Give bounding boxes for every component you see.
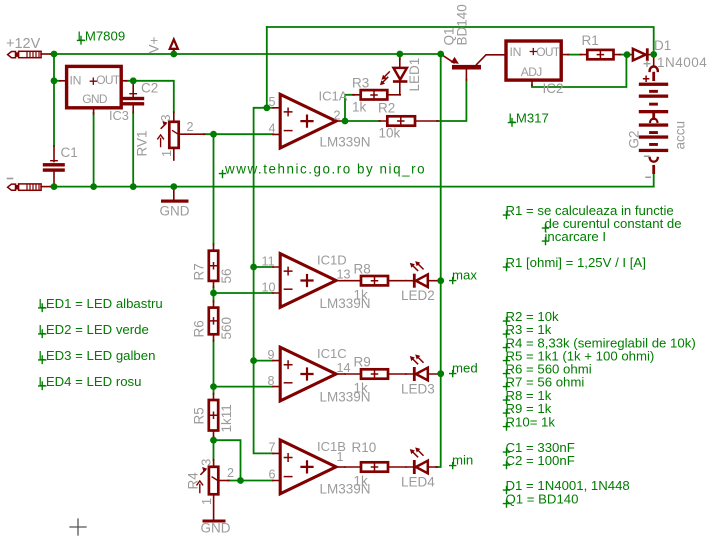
note LED4 legend (39, 374, 142, 390)
svg-text:GND: GND (82, 92, 108, 106)
label R9 (354, 355, 371, 370)
pin label 7 (269, 441, 276, 455)
wire V+ +12V top rail (51, 53, 441, 55)
svg-text:R1 [ohmi] = 1,25V / I [A]: R1 [ohmi] = 1,25V / I [A] (506, 255, 646, 270)
wire sense down to IC1A pin5 (266, 27, 268, 108)
svg-text:10: 10 (262, 281, 276, 295)
note LED3 legend (39, 348, 156, 364)
label +12V (6, 36, 41, 52)
svg-text:1k11: 1k11 (219, 404, 234, 432)
svg-text:1k: 1k (354, 474, 369, 489)
wire +12V jack to IN/C1 column (53, 54, 55, 146)
label R8 (354, 262, 371, 277)
svg-text:accu: accu (673, 121, 688, 150)
pin label 1 (337, 450, 344, 464)
value 56 rotated (219, 268, 234, 283)
svg-text:R1: R1 (582, 33, 599, 48)
label IC1B (317, 439, 346, 454)
wire sense to IC1C pin9 (254, 360, 273, 362)
label LED4 (401, 475, 435, 490)
svg-text:D1: D1 (654, 38, 671, 53)
label R10 (352, 440, 377, 455)
power symbol V+ (170, 39, 178, 54)
ground symbol GND (under RV1) (160, 187, 190, 219)
svg-text:R4: R4 (186, 472, 201, 490)
wire ladder R7-R6 (213, 287, 215, 302)
svg-text:R9: R9 (354, 355, 371, 370)
svg-text:7: 7 (269, 441, 276, 455)
svg-text:OUT: OUT (536, 45, 560, 59)
svg-text:14: 14 (337, 361, 351, 375)
label C1 (61, 145, 78, 160)
pin label 6 (269, 468, 276, 482)
svg-text:IC2: IC2 (543, 81, 564, 96)
trimmer R4 (197, 460, 229, 520)
wire C2 bottom to rail (132, 112, 134, 187)
label RV1 rotated (135, 130, 150, 156)
wire tap to IC1C pin8 (214, 386, 274, 388)
wire ADJ feedback (532, 55, 626, 87)
label LM339N (IC1C) (320, 390, 371, 405)
LED D LED4 (406, 447, 438, 474)
svg-text:4: 4 (269, 122, 276, 136)
svg-text:IC1C: IC1C (317, 346, 347, 361)
note LED2 legend (39, 322, 149, 338)
svg-text:LED4 = LED rosu: LED4 = LED rosu (39, 374, 142, 389)
svg-text:6: 6 (269, 468, 276, 482)
svg-text:IC3: IC3 (109, 108, 129, 123)
svg-text:www.tehnic.go.ro by niq_ro: www.tehnic.go.ro by niq_ro (224, 162, 426, 177)
transistor Q1 BD140 (442, 55, 506, 80)
pin label 14 (337, 361, 351, 375)
note R1 ohmi formula (504, 255, 646, 271)
svg-text:C2 = 100nF: C2 = 100nF (506, 453, 575, 468)
label Q1 rotated (442, 27, 457, 45)
label LM339N (IC1D) (320, 296, 371, 311)
op-amp comparator IC1C (273, 347, 345, 401)
svg-text:OUT: OUT (96, 73, 120, 87)
LED D LED3 (406, 354, 438, 381)
svg-text:1k: 1k (352, 100, 367, 115)
note R9 value (504, 401, 552, 417)
svg-text:9: 9 (268, 348, 275, 362)
svg-text:Q1 = BD140: Q1 = BD140 (506, 492, 579, 507)
wire ladder R5-R4 (213, 437, 215, 461)
svg-text:R6: R6 (192, 320, 207, 337)
svg-text:11: 11 (262, 255, 275, 269)
svg-text:IN: IN (70, 73, 82, 87)
wire IC1A output to R2 (345, 120, 380, 122)
svg-text:LED2: LED2 (401, 288, 435, 303)
resistor R10 (345, 462, 406, 471)
wire ladder R6-R5 (213, 341, 215, 395)
resistor R2 (379, 116, 438, 125)
note R1 formula line2 (543, 216, 682, 232)
note Q1 value (504, 492, 579, 508)
sheet origin cross mark (70, 519, 86, 535)
label BD140 rotated (455, 4, 470, 45)
note R10 value (504, 415, 556, 431)
note D1 value (504, 478, 630, 494)
label minus (8, 178, 13, 180)
svg-text:560: 560 (219, 317, 234, 340)
wire ladder top RV1 wiper to R7 (213, 134, 215, 244)
pin label 2 (RV1) (187, 120, 194, 134)
wire RV1 wiper to IC1A pin4 (204, 133, 273, 135)
wire R5/R4 tap strap to wiper (214, 440, 241, 480)
note C1 value (504, 440, 575, 456)
pin label 1 (RV1) (160, 150, 174, 157)
value 1k (R10) (354, 474, 369, 489)
svg-text:LM339N: LM339N (320, 135, 371, 150)
svg-text:8: 8 (268, 374, 275, 388)
svg-text:1: 1 (160, 150, 174, 157)
svg-text:R10: R10 (352, 440, 377, 455)
note R7 value (504, 375, 585, 391)
net label max (450, 267, 478, 283)
op-amp comparator IC1D (273, 254, 345, 308)
LED D LED2 (406, 261, 438, 288)
value 1k (R3) (352, 100, 367, 115)
diode D1 (627, 48, 654, 66)
note LM317 (509, 111, 549, 127)
value 560 rotated (219, 317, 234, 340)
wire IC2 OUT to R1 (568, 54, 581, 56)
label D1 (654, 38, 671, 53)
wire GND bottom rail (51, 186, 654, 188)
svg-text:V+: V+ (147, 36, 162, 53)
wire sense to IC1D pin11 (254, 266, 273, 268)
svg-text:2: 2 (227, 466, 234, 480)
svg-text:R5: R5 (192, 407, 207, 424)
label IC3 (109, 108, 129, 123)
svg-text:IC1A: IC1A (319, 89, 348, 104)
label IC1D (317, 253, 347, 268)
wire R2 to Q1 base (437, 80, 466, 122)
pin label 4 (269, 122, 276, 136)
svg-text:LED4: LED4 (401, 475, 435, 490)
label LM339N (IC1B) (320, 482, 371, 497)
wire R4 wiper to IC1B pin6 (228, 480, 273, 482)
trimmer RV1 (158, 112, 205, 160)
value 1k1 rotated (219, 404, 234, 432)
wire IC1A output node up to R3 (345, 95, 354, 121)
svg-text:IN: IN (510, 45, 522, 59)
note R5 value (504, 349, 655, 365)
svg-text:13: 13 (337, 268, 351, 282)
label IC1A (319, 89, 348, 104)
svg-text:LED3 = LED galben: LED3 = LED galben (39, 348, 156, 363)
pin label 2 (334, 109, 341, 123)
svg-text:2: 2 (334, 109, 341, 123)
ground symbol GND (under R4) (201, 520, 231, 536)
note R1 formula line3 (543, 229, 607, 245)
LED D LED1 (380, 59, 408, 95)
svg-text:LED3: LED3 (401, 382, 435, 397)
resistor R3 (353, 90, 400, 99)
resistor R9 (345, 369, 406, 378)
capacitor C1 (43, 146, 65, 185)
svg-text:1: 1 (200, 498, 214, 505)
value 1N4004 (D1) (657, 55, 707, 70)
label G2 rotated (627, 130, 642, 148)
svg-text:ADJ: ADJ (521, 65, 542, 79)
battery G2 accu (639, 56, 668, 177)
label R3 (352, 76, 369, 91)
connector X2 minus jack plug (8, 184, 52, 190)
net label min (450, 452, 474, 468)
note LED1 legend (39, 296, 163, 312)
wire OUT net to RV1 top (125, 81, 173, 113)
value 1k (R9) (354, 381, 369, 396)
svg-text:+12V: +12V (6, 36, 41, 52)
resistor R6 (209, 301, 218, 341)
svg-text:LED1 = LED albastru: LED1 = LED albastru (39, 296, 163, 311)
svg-text:2: 2 (187, 120, 194, 134)
op-amp comparator IC1B (273, 440, 345, 494)
wire sense bus vertical to plus inputs (254, 108, 273, 454)
svg-text:10k: 10k (379, 126, 401, 141)
resistor R5 (209, 394, 218, 438)
pin label 13 (337, 268, 351, 282)
svg-text:1k: 1k (354, 381, 369, 396)
svg-text:GND: GND (201, 521, 231, 536)
label R5 rotated (192, 407, 207, 424)
wire pin5 stub (267, 107, 273, 109)
wire IN pin stub net (54, 80, 60, 82)
svg-text:RV1: RV1 (135, 130, 150, 156)
note LM7809 (78, 28, 126, 44)
svg-text:LED1: LED1 (407, 58, 422, 92)
note R2 value (504, 309, 560, 325)
op-amp comparator IC1A (273, 94, 345, 148)
svg-text:G2: G2 (627, 130, 642, 148)
pin label 3 (RV1) (159, 114, 173, 121)
wire LED supply column (436, 54, 441, 467)
pin label 11 (262, 255, 275, 269)
note R8 value (504, 388, 552, 404)
note R6 value (504, 362, 592, 378)
resistor R8 (345, 276, 406, 285)
pin label 2 (R4) (227, 466, 234, 480)
svg-text:3: 3 (159, 114, 173, 121)
svg-text:R8: R8 (354, 262, 371, 277)
regulator IC3 7809 box (60, 66, 127, 114)
label IC1C (317, 346, 347, 361)
svg-text:incarcare I: incarcare I (545, 229, 607, 244)
note R4 value (504, 336, 696, 352)
regulator IC2 LM317 box (506, 41, 569, 86)
pin label 8 (268, 374, 275, 388)
svg-text:56: 56 (219, 268, 234, 283)
value 1k (R8) (354, 288, 369, 303)
svg-text:IC1D: IC1D (317, 253, 347, 268)
label R4 rotated (186, 472, 201, 490)
value accu rotated (673, 121, 688, 150)
svg-text:3: 3 (199, 459, 213, 466)
capacitor C2 (122, 81, 144, 113)
svg-text:BD140: BD140 (455, 4, 470, 45)
pin label 10 (262, 281, 276, 295)
svg-text:R2: R2 (378, 101, 395, 116)
label LED2 (401, 288, 435, 303)
wire battery bottom to rail (653, 173, 655, 187)
wire tap to IC1D pin10 (214, 292, 274, 294)
label R6 rotated (192, 320, 207, 337)
svg-text:1: 1 (337, 450, 344, 464)
pin label 9 (268, 348, 275, 362)
label R2 (378, 101, 395, 116)
note www.tehnic.go.ro by niq_ro (220, 162, 427, 178)
svg-text:1k: 1k (354, 288, 369, 303)
note R3 value (504, 322, 552, 338)
svg-text:R3: R3 (352, 76, 369, 91)
svg-text:R10= 1k: R10= 1k (506, 415, 556, 430)
pin label 3 (R4) (199, 459, 213, 466)
svg-text:R7: R7 (192, 263, 207, 280)
label V+ rotated (147, 36, 162, 53)
label R7 rotated (192, 263, 207, 280)
svg-text:LED2 = LED verde: LED2 = LED verde (39, 322, 149, 337)
label R1 (582, 33, 599, 48)
label LED1 rotated (407, 58, 422, 92)
resistor R1 (581, 50, 621, 59)
label C2 (141, 81, 158, 96)
note R1 formula line1 (504, 203, 674, 219)
label LM339N (IC1A) (320, 135, 371, 150)
svg-text:C2: C2 (141, 81, 158, 96)
pin label 1 (R4) (200, 498, 214, 505)
svg-text:C1: C1 (61, 145, 78, 160)
pin label 5 (269, 95, 276, 109)
wire R1 to D1 node (620, 54, 628, 56)
wire IC3 GND pin to rail (93, 113, 95, 187)
label IC2 (543, 81, 564, 96)
wire battery sense feedback top (267, 27, 654, 50)
note C2 value (504, 453, 575, 469)
value 10k (R2) (379, 126, 401, 141)
label LED3 (401, 382, 435, 397)
svg-text:GND: GND (160, 204, 190, 219)
svg-text:1N4004: 1N4004 (657, 55, 707, 70)
connector X1 +12V jack plug (8, 51, 52, 57)
net label med (450, 360, 478, 376)
wire LED1 top to rail (399, 54, 401, 60)
resistor R7 (209, 244, 218, 288)
